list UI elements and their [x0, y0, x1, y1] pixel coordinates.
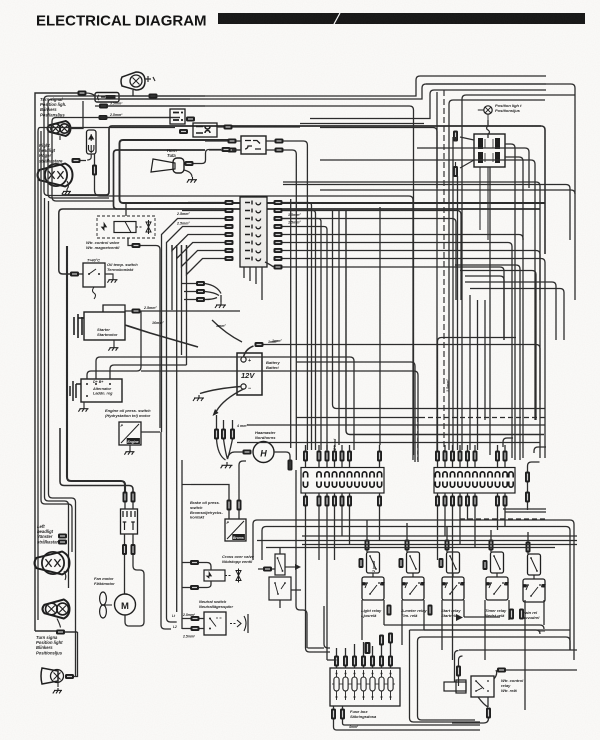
wire valve to connector to bus [128, 238, 160, 428]
terminal strip left bottom connectors [303, 496, 308, 507]
wire pair y509 [503, 509, 546, 512]
wire relay coil taps [319, 520, 528, 532]
connectors left headlight [58, 534, 67, 539]
relay2 box below [269, 577, 291, 600]
wire block inner drop [479, 167, 481, 230]
key switch connector strip [240, 197, 267, 267]
wire starter heavy to battery [125, 325, 198, 347]
wires alternator up [96, 357, 187, 379]
wire oil temp to left bus [59, 209, 117, 274]
wires fan-out drop to engine area [162, 245, 187, 612]
wire position lamp down [57, 619, 61, 628]
wire mesh h3 [232, 149, 240, 151]
wire fan motor bottom loop [125, 615, 144, 626]
wires strip right to relay zone [438, 514, 506, 660]
wire wtr line2 [459, 656, 463, 686]
terminal strip right bottom stubs [438, 493, 506, 514]
wire rect bundle bottom [308, 647, 325, 649]
wtr control valve [97, 216, 155, 238]
ground right headlight [67, 181, 69, 189]
flasher unit 2 box [241, 136, 266, 154]
wire wtr right [494, 670, 577, 679]
fuse box outline [330, 668, 400, 706]
connector tag [99, 115, 108, 120]
wires fuse feeds up [337, 640, 391, 668]
wires three connectors converge ground [217, 415, 233, 460]
light relay [362, 552, 384, 600]
wire mesh right h288 [470, 289, 564, 341]
wire long bus y184 [283, 185, 570, 241]
svg-text:ELECTRICAL DIAGRAM: ELECTRICAL DIAGRAM [36, 13, 207, 30]
wires brake box top [229, 510, 239, 519]
wire neutral feeds left [181, 485, 183, 630]
connector tag on top bus [149, 94, 158, 99]
wire mesh extra h276 [465, 276, 504, 340]
connector tag left [179, 129, 188, 134]
light switch connectors top [123, 492, 128, 503]
wire bulb to block [487, 120, 490, 138]
connector starter right [132, 309, 141, 314]
wires relay outputs horizontals [384, 617, 544, 634]
wire diagonal 1mm2 to battery [212, 320, 242, 342]
horn symbol [151, 158, 184, 173]
connectors cross over left [190, 560, 199, 565]
wire left bus verticals bottom zone [253, 520, 266, 560]
wire lower mesh h357 [160, 357, 354, 450]
connector tag horn line [222, 147, 231, 152]
ground oil press [129, 445, 131, 449]
connector left of small relay [263, 567, 272, 572]
wires above left strip region verticals [289, 460, 291, 470]
terminal strip right top stubs [438, 445, 506, 468]
tall connectors above fuse box [365, 642, 371, 654]
wires strip left to relay zone [306, 514, 380, 660]
fan propeller [100, 592, 112, 618]
wire wtr bottom to left [452, 718, 489, 723]
wire lower mesh h425 [247, 424, 545, 426]
wire long left vertical to bottom [41, 131, 72, 552]
ground horn [184, 170, 192, 177]
wires neutral left [182, 619, 204, 629]
wire alternator D+ corner [87, 311, 141, 379]
terminal strip right [434, 468, 515, 494]
wire lower mesh h417 [296, 417, 420, 419]
wire left vertical pair lower [45, 198, 69, 588]
wire corner line 1 [443, 90, 445, 455]
connector horn [185, 161, 194, 166]
horn H circle [253, 442, 274, 463]
wire right vertical 477 [477, 300, 479, 450]
wire inner frame second [114, 150, 541, 209]
wire right verticals group [453, 137, 458, 450]
a-meter relay [402, 552, 424, 600]
alternator [70, 379, 122, 402]
connector tag C10 [99, 104, 108, 109]
wire bottom lamp to vertical [65, 632, 78, 677]
ground oil temp [105, 274, 113, 277]
wire battery minus to ground [200, 387, 241, 394]
wires fuse box bottom [334, 706, 481, 730]
battery 12V [237, 353, 262, 395]
fuse box bottom connectors [331, 709, 336, 720]
light switch block [121, 509, 138, 534]
ground bottom lamp [57, 683, 59, 687]
connector pill below flasher [92, 165, 97, 176]
wire lower mesh h365 [296, 362, 415, 462]
wire bus y209 right segment [426, 84, 575, 194]
fan motor M circle [115, 594, 136, 615]
wire lamp stub down [59, 136, 61, 140]
small relay box [275, 554, 285, 575]
key switch 9th tag [274, 265, 283, 270]
wire from tag right [108, 105, 205, 107]
wires cross over [182, 563, 211, 588]
bottom turn lamp [41, 668, 64, 684]
terminal strip right bottom connectors [435, 496, 440, 507]
heavy wire to light switch [67, 246, 125, 492]
wire bus y544 [302, 544, 577, 546]
terminal strip left top connectors [303, 451, 308, 462]
neutral plug symbol [230, 614, 248, 633]
wire left headlight stub [64, 571, 66, 580]
wire big loop inner [418, 637, 567, 720]
flasher unit [87, 130, 97, 154]
wire starter B+ [125, 310, 240, 312]
wire mesh right h270 [460, 271, 536, 421]
cross over valve box [204, 569, 241, 583]
wire top lamp down [132, 90, 134, 96]
terminal strip left top stubs [306, 445, 380, 468]
wire bus left drop 4 (to bottom lamps) [38, 128, 175, 621]
wire to turn signal unit [86, 93, 95, 96]
corner hook top right [503, 438, 546, 453]
wire lower mesh h442 [237, 442, 540, 444]
wires cluster converge [205, 284, 221, 300]
wire oil press right [141, 431, 160, 433]
wire bus y520 [257, 520, 574, 660]
arrow relay row [456, 614, 463, 621]
wire lower mesh h434 [346, 210, 544, 435]
alternator ground [83, 402, 85, 406]
connector wtr feed [456, 666, 461, 677]
arrow on minus wire [213, 409, 219, 416]
title bar [218, 13, 585, 24]
wires flasher2 right [266, 141, 307, 460]
oil temp switch box [83, 263, 105, 299]
two-row connector box [193, 123, 217, 137]
connector battery [255, 342, 264, 347]
wires into fusebox from left strip [306, 560, 337, 660]
wire mesh right h265 [455, 265, 520, 460]
wire big loop outer [410, 630, 481, 722]
wire vertical x290.7 [290, 199, 292, 448]
connector horn left [243, 450, 252, 455]
wire mid bus 1 [320, 128, 437, 189]
wtr control relay box [471, 676, 494, 697]
connector tag right [224, 125, 233, 130]
wire mesh right h210 [283, 211, 461, 301]
wire mid vertical 2 [324, 606, 330, 648]
timer relay [486, 552, 508, 600]
wire battery minus down [217, 389, 244, 411]
turn signal unit box [95, 93, 119, 103]
wire second to light switch [60, 428, 133, 492]
connector tags flasher2 left [228, 139, 237, 144]
wire box to flasher2 [217, 126, 300, 128]
right turn signal lamp [48, 121, 71, 136]
fuse feed connectors top [334, 656, 339, 667]
wire mesh extra v485 [484, 300, 486, 420]
wire wtr bottom diag [478, 697, 488, 707]
wires small relays [258, 547, 301, 608]
connector tag 7L8 [72, 158, 81, 163]
wire switch to fan motor [125, 555, 145, 621]
wire corner line 2 [300, 123, 424, 125]
left headlight lamp [35, 552, 70, 575]
wire loop vertical right [566, 637, 570, 650]
key switch left tags [225, 200, 234, 205]
wire bus left drop 3 [52, 118, 180, 202]
terminal strip left [301, 468, 384, 494]
wire mesh extra v490 [489, 167, 491, 455]
wire bus y526 [266, 527, 570, 651]
wires block left hooks [456, 137, 475, 168]
top marker lamp [121, 72, 145, 90]
resistor pill left of relay [444, 680, 466, 693]
starter motor [74, 305, 125, 340]
wire right vertical 470 [469, 295, 471, 450]
strip bottom wires down [244, 267, 262, 300]
wire horn right [274, 452, 290, 460]
wire brake top feed [182, 484, 191, 486]
wire long bus y190 [320, 190, 575, 300]
wire frame top-left [35, 93, 83, 631]
wires relay contacts down [362, 600, 544, 710]
wires flasher2 left [205, 141, 241, 150]
wire left vertical inner [49, 201, 76, 676]
wire bus left drop 2 [48, 99, 190, 198]
start relay [442, 552, 464, 600]
fuses [332, 670, 395, 700]
connector below valve [132, 243, 141, 248]
wire lamp to bus [71, 101, 84, 129]
connector box left pair [170, 109, 185, 124]
relay feed connectors [365, 540, 370, 551]
wire mesh extra h215 [283, 219, 456, 301]
terminal strip right top connectors [435, 451, 440, 462]
connector tags flasher2 right [275, 139, 284, 144]
connector tag right of box [186, 117, 195, 122]
terminal strip left bottom stubs [306, 493, 380, 514]
left lower long verticals x160 x166 x176 [161, 432, 171, 629]
connector oil temp [70, 272, 79, 277]
wire battery plus bus [264, 345, 541, 401]
wire mesh h2 [320, 160, 535, 420]
position light connector block [474, 134, 505, 167]
wire big loop outer top [410, 629, 571, 631]
wire long bus y182 [283, 182, 540, 300]
connector cluster left of strip [196, 281, 205, 286]
wire valve top [125, 203, 127, 216]
wire flasher down to corner [95, 154, 101, 196]
arrow right of small relay [285, 566, 295, 568]
wire long bus y196 [100, 196, 413, 460]
top lamp antenna [145, 76, 155, 82]
wires relay coils up [367, 520, 528, 554]
brake switch box [225, 519, 246, 541]
wires light switch down [125, 534, 134, 544]
wire horn left to ground [228, 452, 243, 458]
wire mesh right h258 [500, 267, 504, 340]
starter ground [113, 340, 115, 345]
wire block bottom drop [487, 167, 489, 240]
connector tags left of block [453, 131, 458, 142]
wires cluster left [182, 284, 197, 300]
wire lower mesh h372 [141, 371, 418, 462]
connector wtr right [497, 668, 506, 673]
key switch right tags [274, 200, 283, 205]
wire mesh h1 [417, 148, 529, 188]
wire from tag right [108, 117, 181, 119]
wires key switch right to bus [283, 203, 546, 459]
connector pair right of strips [525, 472, 530, 483]
three connectors row [214, 429, 219, 440]
position light bulb [478, 106, 492, 120]
wire dashed y519 [460, 518, 546, 520]
wire bus y536 [302, 535, 577, 537]
connectors neutral left [191, 616, 200, 621]
connector wtr bottom [486, 708, 491, 719]
right headlight lamp [38, 164, 73, 187]
neutral switch box [204, 612, 226, 635]
wire wtr relay feed [455, 650, 594, 704]
turn signal connector on frame [78, 91, 87, 96]
wire output y650 [459, 649, 577, 651]
position lamp left [43, 600, 70, 619]
wire corner line 5 [449, 100, 545, 450]
ground cluster [220, 295, 222, 302]
wires connector pair [528, 462, 540, 510]
wire top bus C [95, 106, 414, 455]
wire bus y547 [266, 547, 555, 549]
wire horn right up [194, 150, 222, 164]
connector below position lamp [56, 630, 65, 635]
brake switch connectors [227, 500, 232, 511]
wire mid verticals to bottom [296, 470, 307, 648]
wire top bus A [120, 76, 546, 96]
engine oil pressure switch [119, 422, 141, 445]
wire vertical x339 [338, 210, 340, 445]
frame bottom left corner [35, 630, 56, 632]
connector horn right drop [288, 460, 293, 471]
wire top bus B [120, 84, 546, 99]
wires key switch left fan-out [162, 203, 225, 275]
main relay [523, 554, 545, 602]
wires brake connectors up [191, 461, 246, 500]
wire bus left drop 1 [44, 96, 205, 196]
relay coil side pills [359, 558, 364, 568]
wire vertical x380 [379, 207, 381, 445]
wire heavy inner frame top [120, 140, 546, 203]
wire corner line 3 [436, 92, 438, 455]
wires light switch up [125, 502, 133, 509]
wire battery plus up [244, 346, 254, 357]
wire tag to flasher [81, 154, 92, 161]
connectors below light switch [122, 544, 127, 555]
wire mesh right h282 [465, 282, 556, 340]
wire lower mesh h408 [333, 210, 546, 409]
wire from lamp connector [65, 631, 77, 633]
connector bottom turn lamp [65, 674, 74, 679]
wire corner line 4 [462, 95, 575, 450]
wire heavy bus upper [62, 126, 541, 195]
wires block right down [505, 144, 523, 460]
relay label connectors [387, 605, 392, 616]
wire bus y540 [257, 540, 577, 542]
